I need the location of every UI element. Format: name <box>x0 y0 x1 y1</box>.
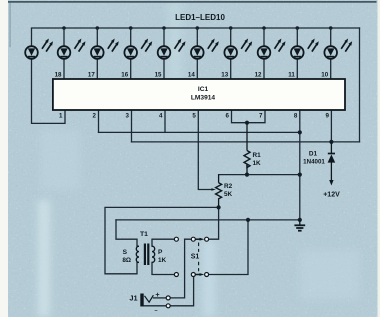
top border rule <box>8 1 377 2</box>
gang dashed link <box>198 243 200 272</box>
wire: bus right side down to V+ line <box>359 28 361 142</box>
wire: secondary top lead <box>116 220 137 246</box>
svg-text:16: 16 <box>121 72 128 79</box>
left border hint <box>10 1 11 47</box>
svg-text:−: − <box>154 309 157 315</box>
primary coil <box>152 246 155 262</box>
wire: J1 minus to switch bottom pole <box>170 276 194 305</box>
svg-text:18: 18 <box>55 72 62 79</box>
svg-text:8Ω: 8Ω <box>122 257 131 264</box>
svg-text:J1: J1 <box>129 294 137 303</box>
node: pin8 / R-wire <box>298 173 302 177</box>
svg-text:6: 6 <box>226 112 230 119</box>
switch S1 (DPST) <box>174 237 208 276</box>
node: R2 bottom junction <box>217 205 221 209</box>
potentiometer R2 <box>211 175 232 208</box>
wire: LED anode bus <box>32 27 360 29</box>
LED LED8 <box>258 28 286 79</box>
svg-text:S1: S1 <box>191 254 200 261</box>
wire: primary bottom lead to S1 <box>152 262 175 274</box>
transformer T1 <box>122 231 166 265</box>
wire: J1 plus to switch top pole <box>170 239 191 298</box>
wire: J1 sleeve lead <box>144 305 167 307</box>
svg-text:5: 5 <box>192 112 196 119</box>
secondary coil <box>136 246 139 262</box>
svg-text:1N4001: 1N4001 <box>303 159 325 166</box>
LEDs LED1-LED10 <box>25 28 352 79</box>
svg-text:P: P <box>158 249 163 256</box>
svg-text:T1: T1 <box>140 231 148 238</box>
pin numbers bottom: 1-9 <box>59 112 330 119</box>
LED LED4 <box>124 28 152 79</box>
node: bus junctions LED2-LED10 <box>62 26 66 30</box>
LED LED1 <box>25 28 53 59</box>
wire: pin9 stub <box>330 110 332 142</box>
wire: pin6-pin7 link <box>232 110 266 123</box>
wire: V+ horizontal pin3 to right corner <box>132 141 360 143</box>
svg-text:+: + <box>155 290 159 299</box>
LED LED5 <box>158 28 186 79</box>
tip contact <box>145 295 154 302</box>
wire: primary top lead to S1 <box>152 239 175 246</box>
LED LED10 <box>324 28 352 79</box>
wire: pin2 stub <box>98 110 100 132</box>
svg-text:7: 7 <box>259 112 263 119</box>
connector circles <box>166 296 170 300</box>
node: R1 top <box>245 121 249 125</box>
LED LED6 <box>191 28 219 79</box>
LED LED7 <box>224 28 252 79</box>
svg-text:2: 2 <box>93 112 97 119</box>
svg-text:13: 13 <box>221 72 228 79</box>
wire: pin1 stub and LED1 cathode return <box>32 59 66 123</box>
svg-text:R1: R1 <box>253 152 262 159</box>
LED LED9 <box>291 28 319 79</box>
svg-text:15: 15 <box>155 72 162 79</box>
svg-text:10: 10 <box>321 72 328 79</box>
svg-text:14: 14 <box>188 72 195 79</box>
wire: J1 tip lead <box>154 297 167 299</box>
wire: pin2 to pin8 ground wire <box>99 131 300 133</box>
svg-text:R2: R2 <box>224 183 233 190</box>
resistor R1 <box>244 123 261 175</box>
svg-text:12: 12 <box>255 72 262 79</box>
svg-text:5K: 5K <box>224 191 233 198</box>
node: S1 lower to ground bus <box>246 218 250 222</box>
svg-text:1K: 1K <box>158 257 167 264</box>
LED LED2 <box>58 28 86 79</box>
svg-text:LED1–LED10: LED1–LED10 <box>175 13 225 22</box>
node: pin8 / pin2 wire <box>298 130 302 134</box>
svg-text:9: 9 <box>326 112 330 119</box>
node: R1 bottom <box>245 173 249 177</box>
S1 upper pole contacts <box>174 237 178 241</box>
wire: R1/R2-top to pin8 <box>219 174 300 176</box>
svg-text:8: 8 <box>294 112 298 119</box>
ground <box>294 220 305 231</box>
svg-text:LM3914: LM3914 <box>191 95 216 102</box>
svg-text:1: 1 <box>59 112 63 119</box>
wire: outer loop R2-bottom to secondary-bottom <box>105 207 219 273</box>
svg-text:3: 3 <box>126 112 130 119</box>
jack J1 <box>129 290 170 315</box>
wire: pin3 stub <box>131 110 133 142</box>
LED LED3 <box>91 28 119 79</box>
wire: R2 bottom to S1 top right contact <box>208 207 218 239</box>
svg-text:D1: D1 <box>309 151 318 158</box>
svg-text:+12V: +12V <box>323 192 340 199</box>
svg-text:4: 4 <box>159 112 163 119</box>
wire: S1 bottom right contact to ground bus <box>208 220 248 275</box>
svg-text:11: 11 <box>288 72 295 79</box>
node: ground junction <box>298 218 302 222</box>
wire: ground bus secondary-top to pin8 <box>116 219 300 221</box>
op-amp/IC U1: IC1 LM3914 box <box>53 79 345 110</box>
svg-text:IC1: IC1 <box>198 86 209 93</box>
pin numbers top: 18 17 16 15 14 13 12 11 10 <box>55 72 329 79</box>
svg-text:1K: 1K <box>253 160 262 167</box>
svg-text:17: 17 <box>88 72 95 79</box>
core <box>144 244 146 266</box>
diode D1 <box>303 142 340 199</box>
wire: pin8 stub down to ground <box>299 110 301 220</box>
svg-text:S: S <box>123 249 128 256</box>
node: pin9 / V+ wire <box>329 140 333 144</box>
wire: pin5 stub to R2 wiper <box>198 110 211 190</box>
S1 lower pole contacts <box>174 273 178 277</box>
wire: pin4 stub <box>164 110 166 132</box>
